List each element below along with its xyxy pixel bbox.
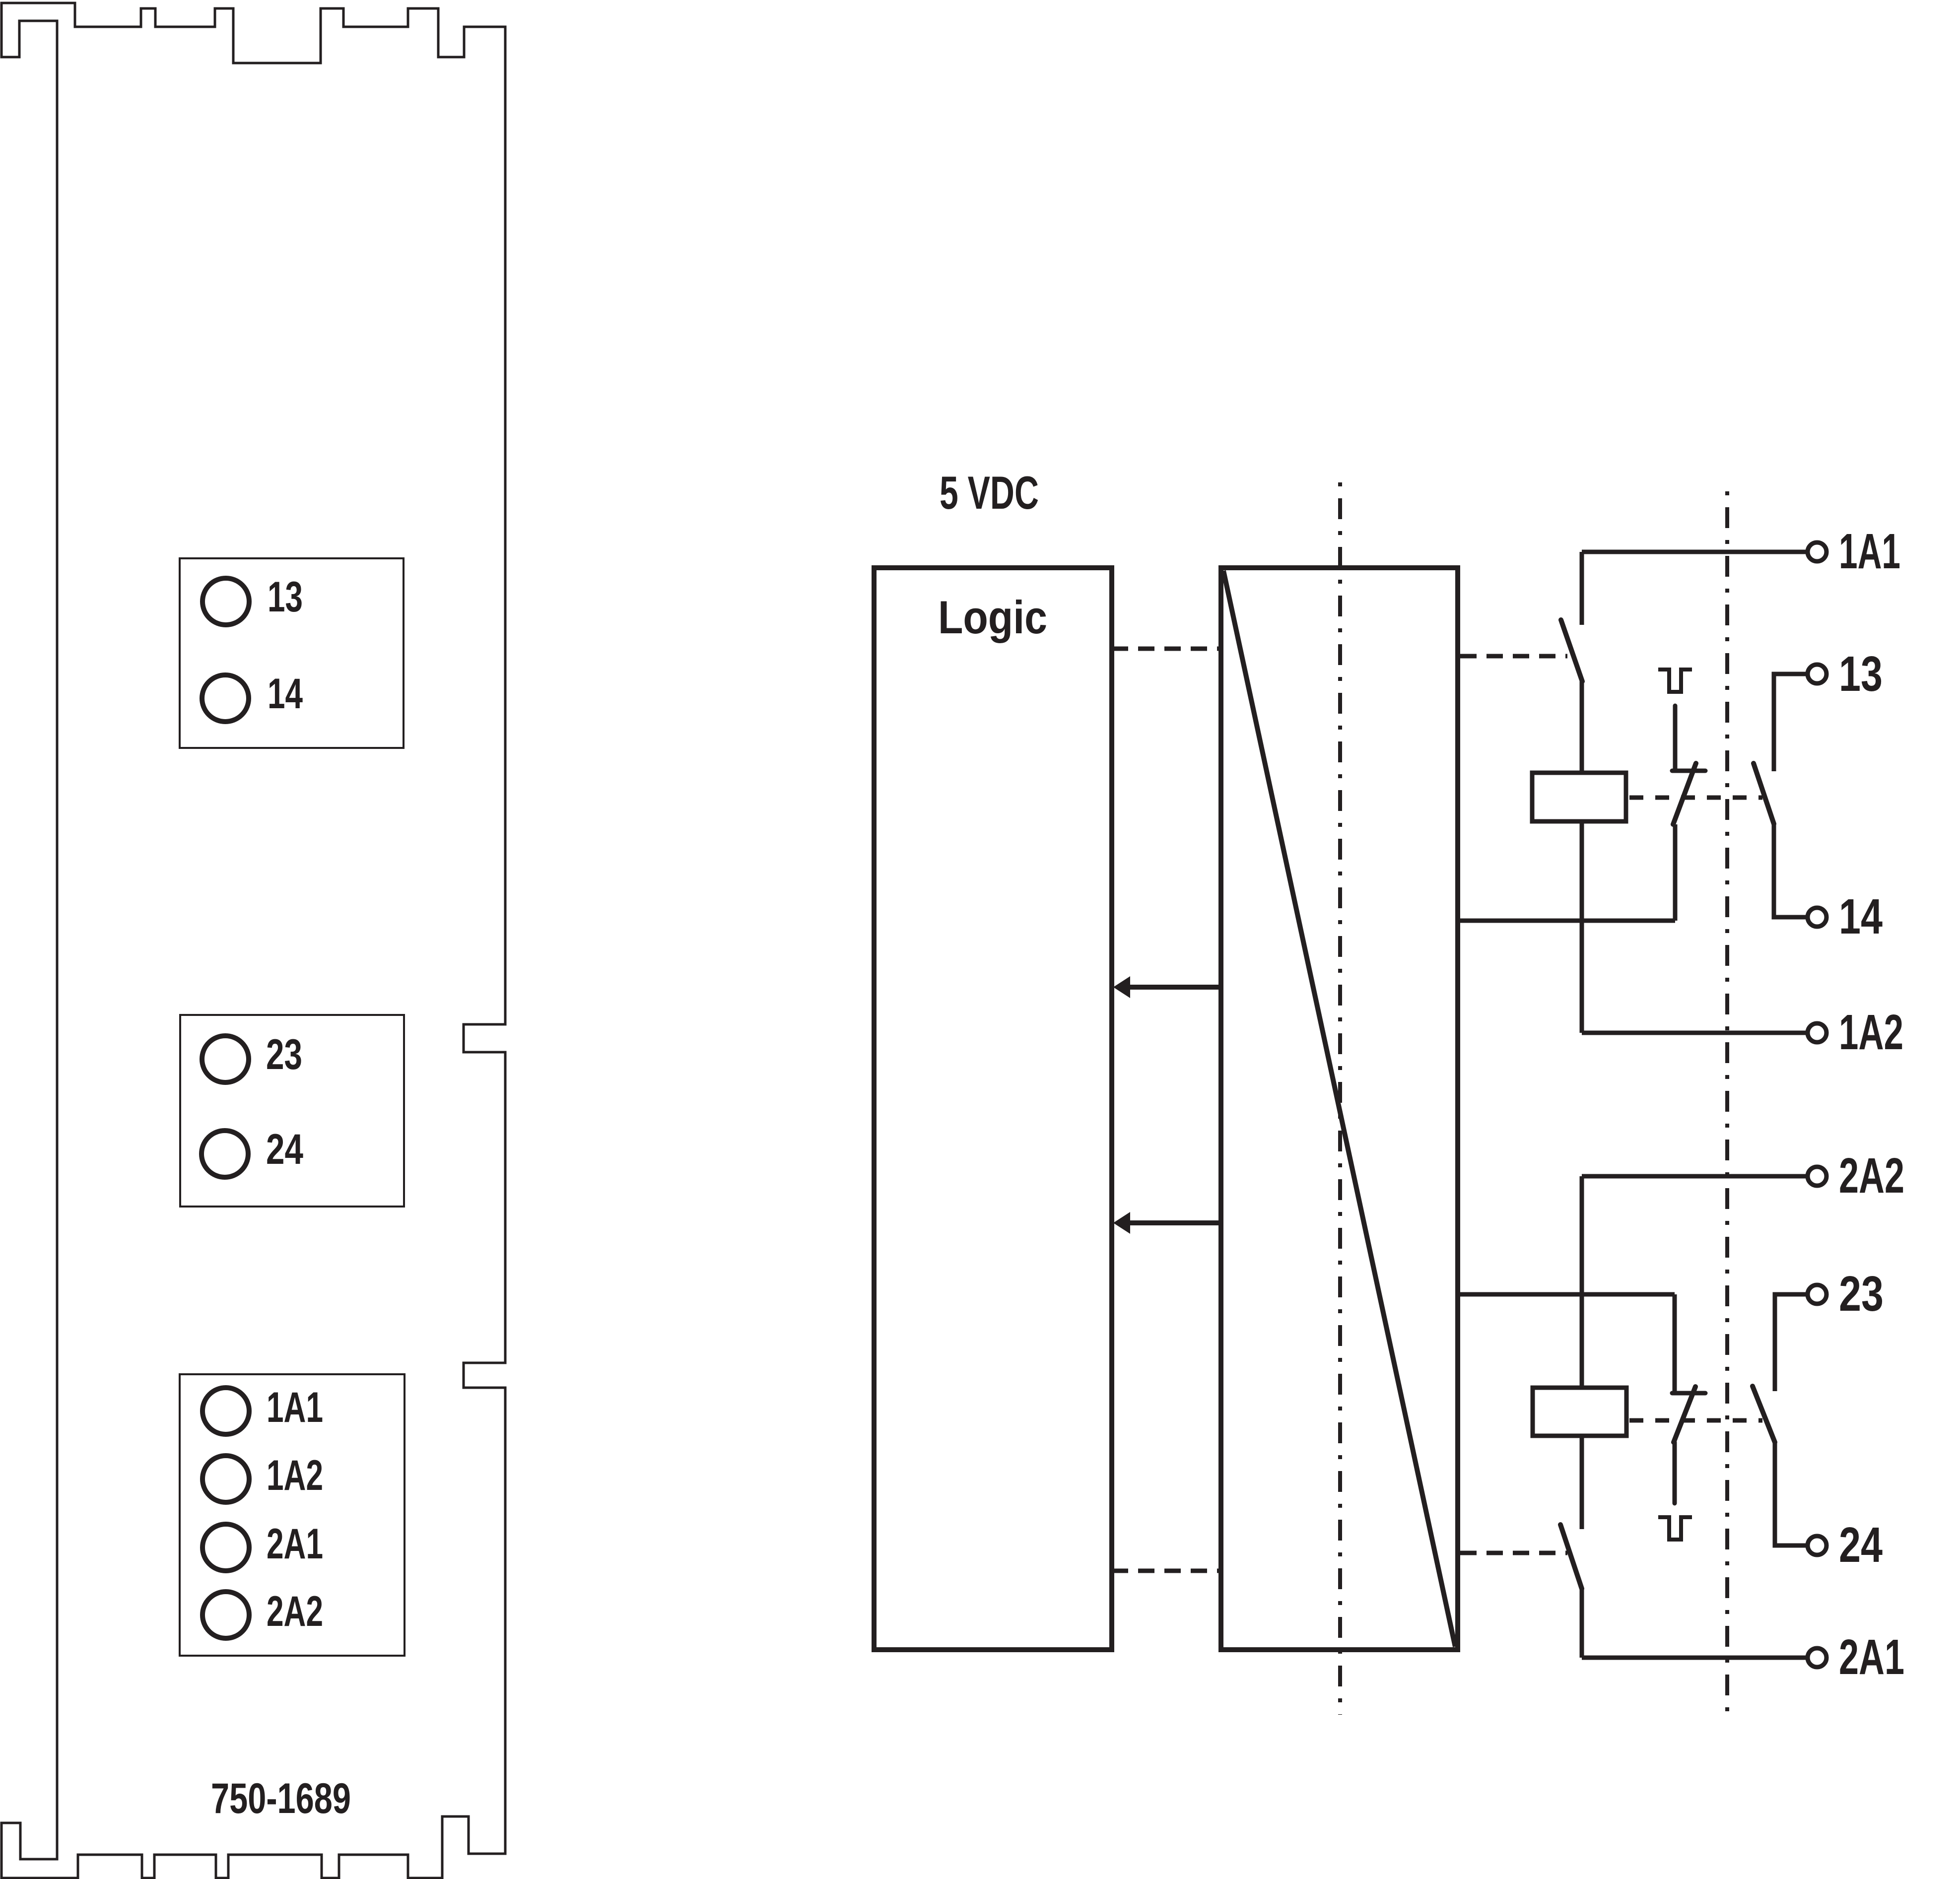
wire 1A2 <box>1582 1031 1808 1035</box>
terminal box 1A1/1A2/2A1/2A2 <box>180 1374 405 1656</box>
terminal 14 <box>1808 908 1826 927</box>
contact 23/24 blade <box>1753 1386 1775 1442</box>
wire 2A2 <box>1582 1174 1808 1179</box>
svg-text:23: 23 <box>266 1031 302 1078</box>
wire coil K2 to contact <box>1580 1436 1584 1529</box>
wire 1A1 <box>1582 550 1808 554</box>
NC contact K2 stub <box>1673 1294 1677 1393</box>
terminal box 13/14 <box>180 558 404 748</box>
terminal 1A1 <box>1808 542 1826 561</box>
dash-dot separation line (right) <box>1725 491 1729 1718</box>
svg-text:Logic: Logic <box>938 591 1047 643</box>
NC contact K2 lower stub <box>1673 1442 1677 1503</box>
contact K1 coil-circuit blade <box>1561 620 1582 681</box>
svg-text:750-1689: 750-1689 <box>211 1775 351 1822</box>
clamp circle 1A1 <box>203 1388 249 1434</box>
svg-text:2A2: 2A2 <box>1839 1148 1904 1204</box>
svg-text:1A1: 1A1 <box>267 1384 323 1431</box>
svg-text:1A2: 1A2 <box>267 1452 323 1499</box>
wire 1A1 drop <box>1580 552 1584 625</box>
isolation barrier block <box>1221 568 1458 1650</box>
svg-text:2A1: 2A1 <box>267 1520 323 1568</box>
NC contact K1 blade <box>1673 763 1696 824</box>
clamp circle 14 <box>202 675 249 722</box>
NC contact K2 blade <box>1674 1387 1695 1442</box>
contact 13/14 blade <box>1754 763 1774 824</box>
module outline 750-1689 side profile <box>1 3 505 1878</box>
isolation barrier diagonal <box>1223 571 1455 1647</box>
terminal 23 <box>1808 1285 1826 1304</box>
wire 23 to contact <box>1775 1294 1808 1391</box>
terminal box 23/24 <box>180 1015 404 1207</box>
dashed link barrier to relay K1 contact <box>1460 654 1567 659</box>
arrow barrier to Logic (lower) <box>1113 1212 1221 1234</box>
wire contact to 2A1 <box>1580 1589 1584 1658</box>
wire 2A2 to coil K2 <box>1580 1176 1584 1388</box>
svg-text:14: 14 <box>1839 889 1883 944</box>
NC contact K1 bar <box>1672 769 1705 773</box>
dashed link Logic to barrier (top) <box>1112 647 1221 651</box>
svg-text:24: 24 <box>266 1126 303 1173</box>
svg-text:1A2: 1A2 <box>1839 1005 1903 1060</box>
svg-text:14: 14 <box>268 670 303 718</box>
terminal 13 <box>1808 665 1826 683</box>
wire 13 to contact <box>1774 674 1808 771</box>
clamp circle 13 <box>203 578 249 625</box>
clamp circle 2A1 <box>203 1524 249 1571</box>
clamp circle 2A2 <box>203 1592 249 1638</box>
dashed link Logic to barrier (bottom) <box>1112 1569 1221 1573</box>
wire coil K1 to 1A2 <box>1580 821 1584 1033</box>
wire contact to 14 <box>1774 824 1808 917</box>
contact K2 coil-circuit blade <box>1560 1525 1582 1589</box>
logic block U1 <box>874 568 1112 1650</box>
dash-dot separation line (left) <box>1338 482 1342 1715</box>
arrow barrier to Logic (upper) <box>1113 976 1221 998</box>
wire 2A1 <box>1582 1656 1808 1660</box>
dashed link coil K2 to contact 23/24 <box>1629 1418 1762 1423</box>
svg-text:2A1: 2A1 <box>1839 1629 1904 1685</box>
wire barrier to NC contact K1 <box>1458 919 1675 923</box>
terminal 2A2 <box>1808 1167 1826 1186</box>
svg-text:1A1: 1A1 <box>1839 524 1900 579</box>
clamp circle 24 <box>202 1131 248 1177</box>
wire barrier to NC contact K2 <box>1458 1292 1675 1297</box>
svg-text:2A2: 2A2 <box>267 1588 323 1635</box>
dashed link coil K1 to contact 13/14 <box>1629 796 1762 800</box>
forced-guidance symbol K2 <box>1658 1517 1692 1540</box>
NC contact K2 bar <box>1672 1391 1705 1396</box>
NC contact K1 lower stub <box>1673 824 1678 921</box>
svg-text:24: 24 <box>1839 1517 1883 1573</box>
dashed link barrier to relay K2 contact <box>1460 1551 1567 1555</box>
svg-text:13: 13 <box>268 573 303 621</box>
terminal 2A1 <box>1808 1648 1826 1667</box>
clamp circle 1A2 <box>203 1456 249 1502</box>
NC contact K1 stub from symbol <box>1673 706 1678 771</box>
svg-text:23: 23 <box>1839 1266 1884 1322</box>
clamp circle 23 <box>202 1036 249 1082</box>
wire blade to coil K1 <box>1580 681 1584 773</box>
svg-text:13: 13 <box>1839 646 1883 702</box>
relay coil K2 <box>1533 1388 1626 1436</box>
svg-text:5 VDC: 5 VDC <box>940 467 1039 519</box>
terminal 1A2 <box>1808 1023 1826 1042</box>
wire contact to 24 <box>1775 1442 1808 1545</box>
relay coil K1 <box>1532 773 1626 821</box>
terminal 24 <box>1808 1536 1826 1555</box>
forced-guidance symbol K1 <box>1658 670 1692 692</box>
